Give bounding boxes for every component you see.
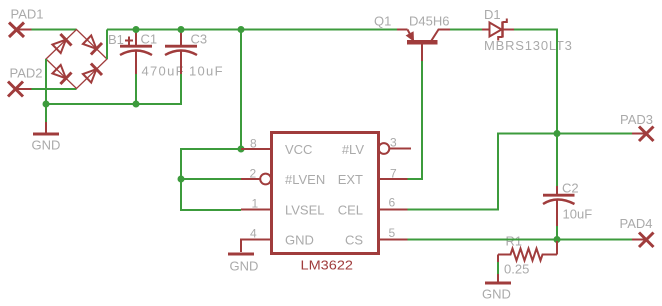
svg-text:5: 5	[389, 226, 396, 240]
pin 1 LVSEL	[241, 209, 272, 211]
polarity + mark	[125, 37, 133, 46]
wire C2 bottom lead	[556, 226, 558, 240]
wire output to PAD3	[557, 133, 632, 135]
junction C1 bottom	[133, 101, 140, 108]
junction bottom-left rail	[43, 101, 50, 108]
wire bottom rail	[46, 74, 181, 104]
capacitor C2	[543, 186, 575, 226]
node PAD1	[9, 23, 24, 38]
wire top rail	[107, 29, 397, 31]
node PAD4	[639, 233, 654, 248]
node PAD2	[8, 82, 23, 97]
diode D1 MBRS130LT3	[482, 19, 514, 41]
diode B1 bottom-right	[83, 64, 102, 83]
wire pin8-pin2-pin1 interconnect	[181, 149, 241, 210]
pin stub PAD2	[16, 88, 32, 90]
svg-text:R1: R1	[506, 234, 523, 249]
svg-text:C1: C1	[141, 32, 158, 47]
svg-text:470uF: 470uF	[142, 64, 185, 79]
pin 2 #LVEN bubble	[241, 174, 271, 185]
svg-text:LM3622: LM3622	[301, 258, 354, 273]
svg-text:3: 3	[390, 136, 397, 150]
svg-text:VCC: VCC	[285, 142, 312, 157]
svg-text:GND: GND	[285, 233, 314, 248]
svg-text:10uF: 10uF	[563, 207, 593, 222]
pin 4 GND	[241, 240, 272, 253]
junction pin 2 branch	[178, 176, 185, 183]
svg-text:B1: B1	[108, 32, 124, 47]
svg-text:4: 4	[250, 227, 257, 241]
transistor Q1	[397, 30, 450, 62]
wire PAD1 to bridge top	[32, 29, 77, 31]
svg-text:D45H6: D45H6	[409, 14, 449, 29]
svg-text:1: 1	[252, 197, 259, 211]
svg-text:C3: C3	[191, 32, 208, 47]
wire Q1 collector to D1	[450, 29, 482, 31]
svg-text:10uF: 10uF	[189, 64, 224, 79]
diode B1 bottom-left	[52, 65, 71, 84]
resistor R1	[498, 241, 557, 262]
svg-text:#LVEN: #LVEN	[285, 172, 325, 187]
wire EXT to Q1 base	[408, 61, 423, 179]
svg-text:Q1: Q1	[374, 14, 391, 29]
ground GND1	[33, 122, 59, 134]
pin 6 CEL	[379, 209, 408, 211]
capacitor C1	[120, 31, 152, 75]
pin stub PAD1	[17, 29, 32, 31]
svg-text:PAD1: PAD1	[11, 7, 44, 22]
pin 7 EXT	[379, 178, 408, 180]
svg-text:GND: GND	[482, 287, 511, 302]
junction C1 top	[133, 26, 140, 33]
wire C2 top lead	[556, 134, 558, 187]
wire C1 bottom lead	[135, 74, 137, 104]
junction C3 top	[178, 26, 185, 33]
junction pin 8	[238, 146, 245, 153]
svg-text:D1: D1	[484, 7, 501, 22]
diode B1 top-right	[83, 35, 102, 54]
arrowhead Q1 emitter	[406, 31, 414, 42]
svg-text:CEL: CEL	[338, 203, 363, 218]
svg-text:2: 2	[250, 167, 257, 181]
pin stub PAD4	[632, 239, 646, 241]
svg-text:CS: CS	[345, 233, 363, 248]
ground GND2	[228, 253, 254, 256]
svg-text:LVSEL: LVSEL	[285, 203, 325, 218]
svg-text:C2: C2	[562, 181, 579, 196]
wire D1 to output corner	[514, 30, 557, 134]
svg-text:6: 6	[389, 196, 396, 210]
pin 8 VCC	[241, 148, 272, 150]
svg-text:8: 8	[250, 137, 257, 151]
svg-text:GND: GND	[32, 138, 61, 153]
junction VCC rail	[238, 26, 245, 33]
wire R1 to ground	[497, 262, 499, 274]
svg-text:PAD3: PAD3	[620, 112, 653, 127]
svg-text:7: 7	[390, 167, 397, 181]
junction CS node	[554, 236, 561, 243]
junction output node	[554, 130, 561, 137]
wire CEL riser	[408, 134, 558, 210]
wire GND drop	[45, 104, 47, 122]
pin 3 #LV bubble	[379, 143, 412, 154]
svg-text:EXT: EXT	[338, 172, 363, 187]
capacitor C3	[165, 31, 197, 75]
node PAD3	[639, 127, 654, 142]
wire bridge right vertex up to top rail	[106, 30, 108, 60]
op-amp U1 LM3622 body	[272, 133, 379, 254]
diode B1 top-left	[52, 34, 71, 53]
svg-text:GND: GND	[230, 259, 259, 274]
svg-text:0.25: 0.25	[504, 262, 529, 277]
wire bridge left vertex down	[45, 59, 47, 104]
wire PAD2 to bridge bottom	[32, 88, 77, 90]
svg-text:#LV: #LV	[342, 142, 364, 157]
wire VCC vertical to pin 8	[240, 30, 242, 150]
svg-text:PAD2: PAD2	[10, 66, 43, 81]
svg-text:PAD4: PAD4	[620, 216, 653, 231]
wire CS row	[408, 239, 633, 241]
rectifier bridge B1	[46, 30, 107, 89]
pin stub PAD3	[632, 133, 646, 135]
pin 5 CS	[379, 239, 408, 241]
ground GND3	[485, 274, 511, 283]
svg-text:MBRS130LT3: MBRS130LT3	[484, 38, 573, 53]
